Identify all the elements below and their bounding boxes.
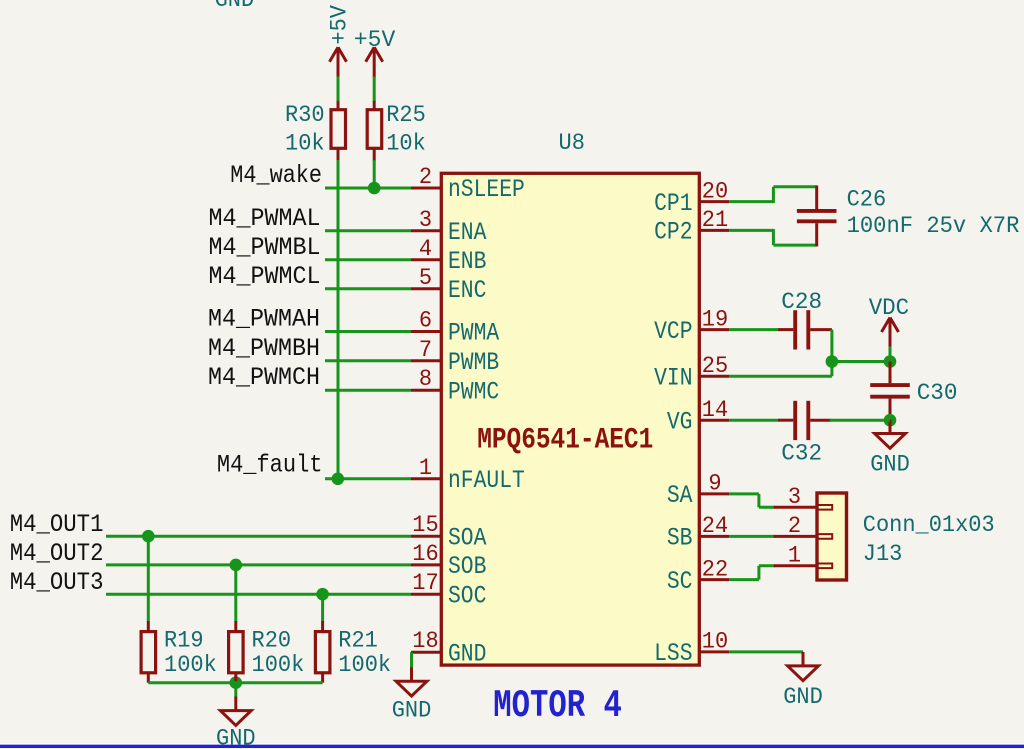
pin 18 (GND) stub	[411, 651, 442, 654]
svg-text:17: 17	[412, 570, 438, 596]
pin 5 (ENC) stub	[411, 287, 442, 290]
svg-text:M4_PWMBL: M4_PWMBL	[209, 233, 321, 262]
svg-text:3: 3	[788, 484, 801, 510]
pin 14 (VG) stub	[699, 419, 729, 422]
svg-text:3: 3	[419, 207, 432, 233]
pin name GND	[448, 639, 486, 668]
connector J13 pin 3 stub	[774, 506, 816, 509]
svg-text:MPQ6541-AEC1: MPQ6541-AEC1	[477, 423, 653, 457]
svg-text:GND: GND	[215, 0, 255, 13]
label net M4_PWMAL	[209, 204, 321, 233]
svg-text:7: 7	[419, 337, 432, 363]
wire (VCP to C28)	[729, 328, 779, 331]
junction (M4_fault)	[332, 473, 345, 486]
svg-text:ENB: ENB	[448, 247, 486, 276]
pin number 15	[412, 512, 438, 538]
pin number 3	[419, 207, 432, 233]
pin 19 (VCP) stub	[699, 328, 729, 331]
power VDC	[882, 318, 899, 348]
junction (C30/VG)	[884, 414, 897, 427]
label +5V	[354, 27, 396, 53]
pin number 18	[412, 628, 438, 654]
junction (C28/VIN)	[826, 355, 839, 368]
wire (net to pin 4)	[325, 258, 411, 261]
svg-text:100k: 100k	[338, 652, 391, 678]
sheet margin strip	[0, 743, 1024, 745]
pin name ENB	[448, 247, 486, 276]
pin 7 (PWMB) stub	[411, 359, 442, 362]
pin 4 (ENB) stub	[411, 258, 442, 261]
pin number 17	[412, 570, 438, 596]
svg-text:10: 10	[702, 629, 728, 655]
pin 25 (VIN) stub	[699, 375, 729, 378]
svg-text:18: 18	[412, 628, 438, 654]
ground (pin 18) label	[392, 698, 432, 724]
wire (CP1 route b)	[772, 187, 775, 203]
wire (VG to C32)	[729, 419, 779, 422]
svg-text:SOC: SOC	[448, 581, 486, 610]
svg-text:Conn_01x03: Conn_01x03	[863, 512, 995, 538]
svg-text:4: 4	[419, 236, 432, 262]
wire (SC route c)	[759, 564, 775, 567]
pin name CP1	[654, 189, 692, 218]
pin number 16	[412, 541, 438, 567]
svg-text:LSS: LSS	[654, 639, 692, 668]
wire (CP2 route a)	[729, 229, 773, 232]
connector J13 body	[817, 493, 847, 580]
wire (CP2 route c)	[773, 244, 816, 247]
svg-text:5: 5	[419, 265, 432, 291]
pin 9 (SA) stub	[699, 492, 729, 495]
label net M4_OUT2	[10, 539, 104, 568]
svg-text:M4_OUT3: M4_OUT3	[10, 568, 104, 597]
svg-text:9: 9	[708, 471, 721, 497]
wire (pin10 LSS)	[729, 650, 803, 653]
pin number 10	[702, 629, 728, 655]
svg-text:J13: J13	[863, 541, 903, 567]
pin 22 (SC) stub	[699, 578, 729, 581]
ground (pin 10 LSS)	[788, 652, 819, 681]
svg-text:C32: C32	[781, 441, 822, 467]
pin 17 (SOC) stub	[411, 593, 442, 596]
ground (C30)	[875, 420, 906, 449]
pin number 14	[702, 397, 728, 423]
junction (R25/nSLEEP)	[368, 182, 381, 195]
svg-text:100k: 100k	[252, 652, 305, 678]
svg-text:SC: SC	[667, 567, 693, 596]
wire (R25 to nSLEEP net)	[373, 160, 376, 188]
pin name VIN	[654, 363, 692, 392]
pin number 19	[702, 306, 728, 332]
svg-text:VCP: VCP	[654, 317, 692, 346]
junction (M4_OUT3/R21)	[316, 588, 329, 601]
pin number 3 (J13)	[788, 484, 801, 510]
svg-text:+5V: +5V	[354, 27, 396, 53]
pin number 20	[702, 178, 728, 204]
label net M4_PWMAH	[208, 305, 320, 334]
label VDC	[869, 295, 910, 321]
op-amp U8 MPQ6541-AEC1 body	[441, 173, 699, 665]
svg-text:R30: R30	[285, 102, 325, 128]
resistor R21	[315, 621, 330, 683]
wire (VIN to node)	[729, 375, 832, 378]
svg-text:6: 6	[419, 308, 432, 334]
wire (net to pin 2)	[325, 187, 411, 190]
svg-text:SOB: SOB	[448, 552, 486, 581]
svg-text:MOTOR 4: MOTOR 4	[493, 684, 622, 728]
label net M4_PWMCH	[208, 363, 320, 392]
svg-text:19: 19	[702, 306, 728, 332]
svg-text:C26: C26	[847, 187, 887, 213]
svg-text:2: 2	[419, 164, 432, 190]
label net M4_wake	[230, 161, 322, 190]
svg-text:M4_OUT2: M4_OUT2	[10, 539, 104, 568]
pin number 4	[419, 236, 432, 262]
svg-text:SOA: SOA	[448, 523, 486, 552]
pin name SOB	[448, 552, 486, 581]
pin number 5	[419, 265, 432, 291]
junction (M4_OUT1/R19)	[142, 530, 155, 543]
label C28	[781, 289, 822, 315]
pin 6 (PWMA) stub	[411, 330, 442, 333]
pin 8 (PWMC) stub	[411, 389, 442, 392]
svg-text:1: 1	[419, 455, 432, 481]
resistor R25	[367, 101, 382, 161]
junction (GND bus/R20)	[230, 676, 243, 689]
svg-text:PWMB: PWMB	[448, 348, 499, 377]
pin name SC	[667, 567, 693, 596]
pin number 1	[419, 455, 432, 481]
wire (VDC to node)	[889, 347, 892, 362]
capacitor C32	[778, 401, 830, 440]
svg-text:nSLEEP: nSLEEP	[448, 175, 525, 204]
junction (VDC/VIN)	[884, 355, 897, 368]
wire (net to pin 1)	[325, 477, 411, 480]
wire	[337, 77, 340, 102]
ground (pin 18)	[396, 667, 427, 696]
pin name VCP	[654, 317, 692, 346]
label R20	[252, 627, 292, 653]
svg-text:R19: R19	[164, 627, 204, 653]
label 100k (R21)	[338, 652, 391, 678]
label net M4_PWMCL	[209, 262, 321, 291]
label 10k (R25)	[386, 130, 426, 156]
svg-text:SB: SB	[667, 524, 693, 553]
svg-text:GND: GND	[216, 725, 256, 749]
wire (R20 top)	[234, 565, 237, 622]
svg-text:22: 22	[702, 556, 728, 582]
label Conn_01x03	[863, 512, 995, 538]
ground (R19-R21 bus) label	[216, 725, 256, 749]
label 100nF 25v X7R	[847, 213, 1020, 239]
pin name nSLEEP	[448, 175, 525, 204]
wire (SA route a)	[729, 492, 759, 495]
wire (C32 to VDC node)	[830, 419, 891, 422]
wire (SA route b)	[757, 494, 760, 507]
label 100k (R20)	[252, 652, 305, 678]
wire (bus to GND)	[234, 683, 237, 698]
capacitor C28	[778, 310, 832, 349]
svg-text:100nF 25v X7R: 100nF 25v X7R	[847, 213, 1020, 239]
wire (CP2 route b)	[772, 229, 775, 245]
wire (net to pin 8)	[325, 389, 411, 392]
wire (SA route c)	[759, 506, 775, 509]
svg-text:C28: C28	[781, 289, 822, 315]
ground (R19-R21 bus)	[220, 697, 251, 726]
capacitor C26	[797, 186, 837, 247]
pin number 8	[419, 366, 432, 392]
connector J13 pin 1 stub	[774, 564, 816, 567]
wire (C28 to VIN node a)	[830, 330, 833, 362]
pin 24 (SB) stub	[699, 535, 729, 538]
svg-text:M4_PWMAL: M4_PWMAL	[209, 204, 321, 233]
pin 1 (nFAULT) stub	[411, 477, 442, 480]
pin 3 (ENA) stub	[411, 229, 442, 232]
wire (net to pin 17)	[106, 593, 411, 596]
svg-text:M4_PWMAH: M4_PWMAH	[208, 305, 320, 334]
pin 20 (CP1) stub	[699, 200, 729, 203]
svg-text:10k: 10k	[386, 130, 426, 156]
svg-text:GND: GND	[783, 684, 823, 710]
pin number 7	[419, 337, 432, 363]
svg-text:VDC: VDC	[869, 295, 910, 321]
pin name PWMB	[448, 348, 499, 377]
pin number 6	[419, 308, 432, 334]
svg-text:ENC: ENC	[448, 276, 486, 305]
pin 15 (SOA) stub	[411, 535, 442, 538]
pin 2 (nSLEEP) stub	[411, 187, 442, 190]
pin number 22	[702, 556, 728, 582]
svg-text:GND: GND	[448, 639, 486, 668]
pin number 25	[702, 353, 728, 379]
svg-text:SA: SA	[667, 481, 693, 510]
svg-text:M4_OUT1: M4_OUT1	[10, 510, 104, 539]
resistor R30	[331, 101, 346, 161]
wire (GND bus)	[148, 681, 322, 684]
resistor R20	[229, 621, 244, 683]
wire (R19 top)	[147, 536, 150, 621]
power +5V (above R30)	[330, 47, 347, 77]
pin name nFAULT	[448, 466, 525, 495]
capacitor C30	[870, 362, 910, 421]
wire (CP1 route c)	[773, 185, 816, 188]
label C26	[847, 187, 887, 213]
svg-text:15: 15	[412, 512, 438, 538]
wire (SC route b)	[757, 566, 760, 580]
pin name CP2	[654, 218, 692, 247]
svg-text:16: 16	[412, 541, 438, 567]
label net M4_OUT1	[10, 510, 104, 539]
pin number 2	[419, 164, 432, 190]
power +5V (above R25)	[366, 47, 383, 77]
svg-text:M4_PWMCL: M4_PWMCL	[209, 262, 321, 291]
sheet border line	[0, 745, 1024, 748]
wire (net to pin 5)	[325, 287, 411, 290]
label net M4_fault	[217, 451, 323, 480]
ground (pin 10 LSS) label	[783, 684, 823, 710]
pin 16 (SOB) stub	[411, 563, 442, 566]
svg-text:25: 25	[702, 353, 728, 379]
pin name ENC	[448, 276, 486, 305]
svg-text:U8: U8	[559, 130, 585, 156]
svg-text:100k: 100k	[164, 652, 217, 678]
wire (R30 to M4_fault)	[337, 160, 340, 479]
pin number 2 (J13)	[788, 513, 801, 539]
svg-text:R25: R25	[386, 102, 426, 128]
label C32	[781, 441, 822, 467]
wire (net to pin 3)	[325, 229, 411, 232]
pin name SB	[667, 524, 693, 553]
svg-text:ENA: ENA	[448, 218, 486, 247]
label J13	[863, 541, 903, 567]
label R19	[164, 627, 204, 653]
svg-text:CP1: CP1	[654, 189, 692, 218]
connector J13 pin 2 stub	[774, 535, 816, 538]
pin name PWMC	[448, 377, 499, 406]
pin name LSS	[654, 639, 692, 668]
pin number 21	[702, 207, 728, 233]
pin number 1 (J13)	[788, 542, 801, 568]
wire (SB route)	[729, 535, 775, 538]
svg-text:8: 8	[419, 366, 432, 392]
label 100k (R19)	[164, 652, 217, 678]
label R21	[338, 627, 378, 653]
svg-text:1: 1	[788, 542, 801, 568]
svg-text:PWMC: PWMC	[448, 377, 499, 406]
pin name PWMA	[448, 319, 499, 348]
svg-text:GND: GND	[392, 698, 432, 724]
svg-text:VG: VG	[667, 407, 693, 436]
svg-text:M4_fault: M4_fault	[217, 451, 323, 480]
svg-text:20: 20	[702, 178, 728, 204]
label MOTOR 4	[493, 684, 622, 728]
label R30	[285, 102, 325, 128]
pin number 24	[702, 513, 728, 539]
wire (CP1 route a)	[729, 200, 773, 203]
label C30	[917, 380, 958, 406]
label MPQ6541-AEC1	[477, 423, 653, 457]
wire (R21 top)	[321, 594, 324, 621]
wire (pin18 to GND)	[410, 652, 413, 668]
svg-text:14: 14	[702, 397, 728, 423]
label 10k (R30)	[285, 130, 325, 156]
wire (net to pin 15)	[106, 535, 411, 538]
wire (net to pin 16)	[106, 563, 411, 566]
pin name SOC	[448, 581, 486, 610]
svg-text:M4_PWMCH: M4_PWMCH	[208, 363, 320, 392]
resistor R19	[141, 621, 156, 683]
pin number 9	[708, 471, 721, 497]
svg-text:CP2: CP2	[654, 218, 692, 247]
svg-text:2: 2	[788, 513, 801, 539]
svg-text:nFAULT: nFAULT	[448, 466, 525, 495]
wire (node riser)	[830, 360, 833, 376]
svg-text:10k: 10k	[285, 130, 325, 156]
svg-text:M4_PWMBH: M4_PWMBH	[208, 334, 320, 363]
svg-text:M4_wake: M4_wake	[230, 161, 322, 190]
label net M4_OUT3	[10, 568, 104, 597]
svg-text:21: 21	[702, 207, 728, 233]
label R25	[386, 102, 426, 128]
svg-text:C30: C30	[917, 380, 958, 406]
label net M4_PWMBH	[208, 334, 320, 363]
pin 10 (LSS) stub	[699, 650, 729, 653]
svg-text:R20: R20	[252, 627, 292, 653]
label +5V (vertical)	[327, 5, 353, 45]
svg-text:24: 24	[702, 513, 728, 539]
pin name ENA	[448, 218, 486, 247]
ground (C30) label	[870, 452, 910, 478]
label U8	[559, 130, 585, 156]
junction (M4_OUT2/R20)	[230, 559, 243, 572]
pin 21 (CP2) stub	[699, 229, 729, 232]
svg-text:R21: R21	[338, 627, 378, 653]
wire (net to pin 6)	[325, 330, 411, 333]
svg-text:PWMA: PWMA	[448, 319, 499, 348]
pin name SA	[667, 481, 693, 510]
wire	[373, 77, 376, 102]
label net M4_PWMBL	[209, 233, 321, 262]
wire (C28 to VIN node b)	[832, 360, 890, 363]
pin name VG	[667, 407, 693, 436]
wire (SC route a)	[729, 578, 759, 581]
svg-text:VIN: VIN	[654, 363, 692, 392]
pin name SOA	[448, 523, 486, 552]
label GND (net, top cut off)	[215, 0, 255, 13]
svg-text:GND: GND	[870, 452, 910, 478]
wire (net to pin 7)	[325, 359, 411, 362]
svg-text:+5V: +5V	[327, 5, 353, 45]
